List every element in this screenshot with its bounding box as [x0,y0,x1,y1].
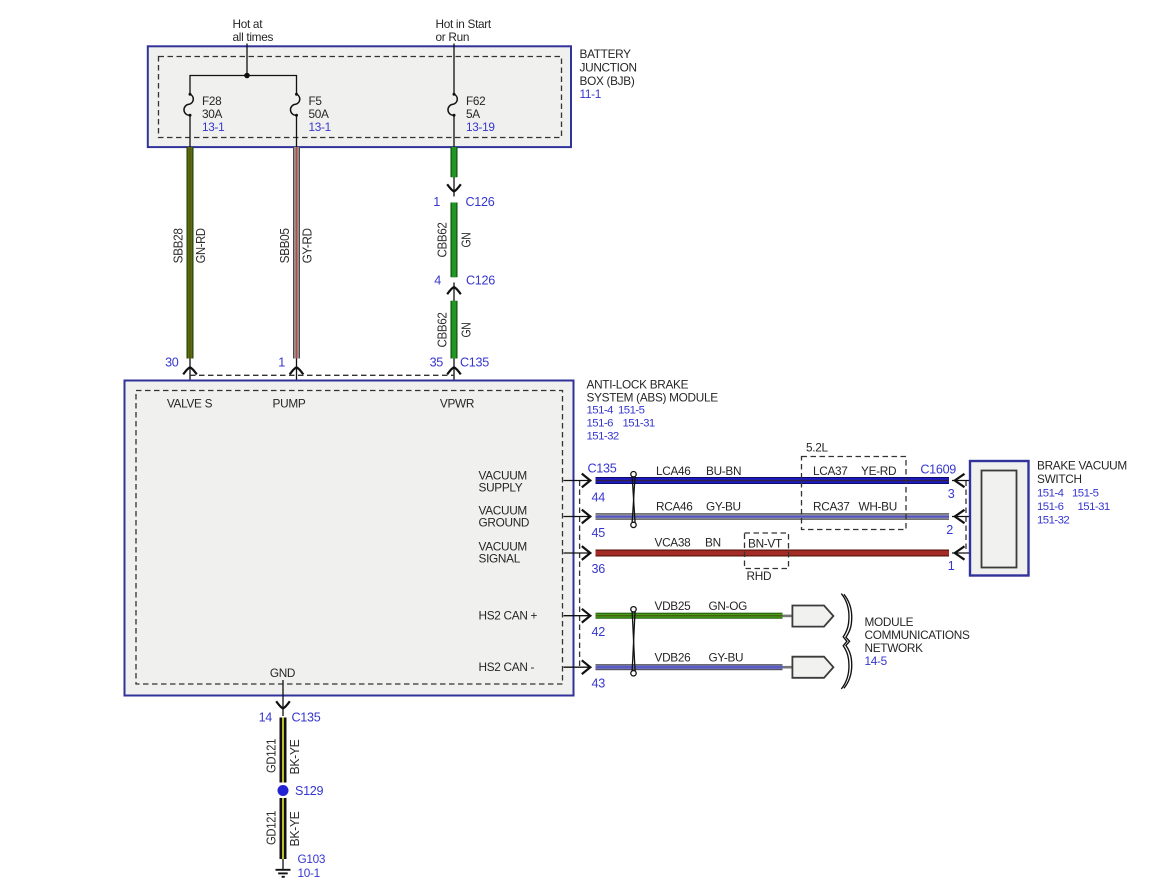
svg-text:1: 1 [278,356,285,370]
wire SBB05 GY-RD [277,147,315,359]
svg-text:GN: GN [458,232,473,247]
svg-text:GN-OG: GN-OG [709,599,748,613]
wire hot-in-start feed [453,44,455,94]
svg-text:or Run: or Run [436,30,470,44]
svg-text:SBB28: SBB28 [170,228,185,263]
pin 1 ABS [278,356,303,397]
svg-text:YE-RD: YE-RD [861,464,896,478]
wire CBB62 GN segment 1 [451,147,458,177]
label BATTERY JUNCTION BOX (BJB) 11-1 [580,47,637,101]
svg-text:GD121: GD121 [264,739,279,773]
label MODULE COMMUNICATIONS NETWORK 14-5 [865,615,970,668]
svg-text:Hot at: Hot at [233,17,264,31]
svg-text:45: 45 [592,526,606,540]
svg-text:BN: BN [705,536,721,550]
wire hot-at-all-times feed [246,44,248,76]
svg-text:5.2L: 5.2L [806,441,828,455]
pin 2 brake vacuum switch [946,510,981,537]
svg-text:PUMP: PUMP [273,397,306,411]
pin 36 ABS [564,546,606,576]
svg-text:GROUND: GROUND [479,516,530,530]
svg-text:HS2 CAN +: HS2 CAN + [479,609,538,623]
dashed option box BN-VT RHD [745,533,789,583]
svg-text:36: 36 [592,562,606,576]
svg-text:30: 30 [165,356,179,370]
svg-text:Hot in Start: Hot in Start [436,17,492,31]
svg-text:151-5: 151-5 [618,405,645,417]
fuse F5 50A 13-1 [290,93,330,134]
svg-text:C126: C126 [466,274,495,288]
pin 3 brake vacuum switch [948,474,982,501]
svg-text:13-19: 13-19 [466,120,495,134]
svg-text:43: 43 [592,677,606,691]
off-page connector HS2 CAN + [783,606,834,627]
pin 45 ABS [564,510,606,540]
svg-text:13-1: 13-1 [309,120,331,134]
label BRAKE VACUUM SWITCH [1037,459,1127,527]
svg-text:GD121: GD121 [264,811,279,845]
svg-text:S129: S129 [295,784,324,798]
connector C1609 dashed line [965,481,967,554]
svg-text:BATTERY: BATTERY [580,47,632,61]
svg-text:ANTI-LOCK BRAKE: ANTI-LOCK BRAKE [587,378,689,392]
wire bus to fuses [190,76,297,94]
wire GD121 BK-YE segment 2 [264,798,303,859]
svg-text:BK-YE: BK-YE [287,739,302,775]
svg-text:1: 1 [948,559,955,573]
svg-text:JUNCTION: JUNCTION [580,61,637,75]
svg-text:C126: C126 [466,195,495,209]
svg-text:5A: 5A [466,107,480,121]
svg-text:CBB62: CBB62 [434,222,449,257]
fuse F28 30A 13-1 [184,93,224,134]
svg-text:HS2 CAN -: HS2 CAN - [479,660,535,674]
svg-text:BOX (BJB): BOX (BJB) [580,74,635,88]
svg-text:14-5: 14-5 [865,654,888,668]
svg-text:BN-VT: BN-VT [748,537,782,551]
pin label VACUUM SUPPLY [479,469,527,495]
svg-text:14: 14 [259,711,273,725]
splice S129 [278,784,324,798]
wire VDB25 GN-OG [596,599,783,619]
wire VCA38 BN [596,536,950,557]
brace module communications network [841,594,851,689]
svg-text:151-32: 151-32 [587,431,619,443]
wire F5 output [296,115,298,147]
svg-text:G103: G103 [298,852,326,866]
connector C126 pin 4 [434,274,495,302]
svg-text:VPWR: VPWR [440,397,474,411]
wire F62 output [453,115,455,147]
svg-text:RCA37: RCA37 [813,500,850,514]
pin label VACUUM GROUND [479,504,530,530]
connector C135 pin 35 [430,356,490,397]
svg-text:4: 4 [434,274,441,288]
battery junction box BJB [148,46,571,147]
connector C135 dashed line right [579,481,581,668]
fuse F62 5A 13-19 [448,93,495,134]
junction node [244,73,250,79]
svg-text:RCA46: RCA46 [656,500,693,514]
svg-text:RHD: RHD [747,569,772,583]
svg-text:11-1: 11-1 [580,87,602,101]
pin 1 brake vacuum switch [948,546,982,573]
svg-text:151-6: 151-6 [587,418,614,430]
wire GD121 BK-YE segment 1 [264,718,303,783]
svg-text:MODULE: MODULE [865,615,914,629]
dashed option box 5.2L [802,441,907,530]
svg-text:1: 1 [433,195,440,209]
svg-text:GN: GN [458,322,473,337]
twisted pair loop wires 44-45 [631,472,636,528]
svg-text:SYSTEM (ABS) MODULE: SYSTEM (ABS) MODULE [587,391,719,405]
svg-text:COMMUNICATIONS: COMMUNICATIONS [865,628,970,642]
svg-text:3: 3 [948,487,955,501]
wire VDB26 GY-BU [596,651,783,671]
svg-text:all times: all times [233,30,274,44]
svg-text:GY-BU: GY-BU [709,651,744,665]
wire SBB28 GN-RD [170,147,208,359]
connector C126 pin 1 [433,177,494,209]
wire RCA46 GY-BU [596,500,950,520]
off-page connector HS2 CAN - [783,657,834,678]
twisted pair loop wires 42-43 [631,607,636,676]
pin 42 ABS [564,609,606,639]
anti-lock brake system ABS module box [125,381,574,696]
pin 44 ABS [564,462,617,505]
ground G103 10-1 [276,852,326,880]
svg-text:BK-YE: BK-YE [287,811,302,847]
svg-text:LCA46: LCA46 [656,464,691,478]
svg-text:C135: C135 [588,462,617,476]
svg-text:151-32: 151-32 [1037,515,1069,527]
svg-text:13-1: 13-1 [202,120,224,134]
svg-text:35: 35 [430,356,444,370]
connector C135 dashed line top [190,374,454,376]
pin 30 ABS [165,356,197,397]
wire CBB62 GN segment 2 [434,203,473,278]
svg-text:WH-BU: WH-BU [859,500,897,514]
svg-text:151-31: 151-31 [1078,501,1110,513]
svg-text:SBB05: SBB05 [277,228,292,263]
svg-text:C135: C135 [292,711,321,725]
svg-text:151-4: 151-4 [587,405,614,417]
svg-text:F28: F28 [202,94,222,108]
svg-text:151-5: 151-5 [1072,488,1099,500]
svg-text:C135: C135 [460,356,489,370]
svg-text:NETWORK: NETWORK [865,641,924,655]
svg-text:151-4: 151-4 [1037,488,1064,500]
svg-text:VCA38: VCA38 [655,536,692,550]
svg-text:VALVE S: VALVE S [167,397,213,411]
pin 43 ABS [564,660,606,690]
label Hot in Start or Run [436,17,492,44]
svg-text:151-6: 151-6 [1037,501,1064,513]
svg-text:C1609: C1609 [920,463,956,477]
svg-text:F5: F5 [309,94,323,108]
svg-text:151-31: 151-31 [623,418,655,430]
svg-text:SUPPLY: SUPPLY [479,481,523,495]
svg-text:GY-RD: GY-RD [300,228,315,263]
svg-text:50A: 50A [309,107,330,121]
svg-text:BRAKE VACUUM: BRAKE VACUUM [1037,459,1127,473]
svg-text:44: 44 [592,491,606,505]
svg-text:GND: GND [270,666,295,680]
wire CBB62 GN segment 3 [434,301,473,359]
svg-text:VDB25: VDB25 [655,599,692,613]
svg-text:10-1: 10-1 [298,866,320,880]
wire LCA46 BU-BN [596,464,950,484]
svg-text:SIGNAL: SIGNAL [479,552,521,566]
svg-text:VDB26: VDB26 [655,651,692,665]
svg-text:CBB62: CBB62 [434,312,449,347]
brake vacuum switch box [970,461,1029,576]
wire F28 output [189,115,191,147]
svg-text:SWITCH: SWITCH [1037,472,1082,486]
pin label VACUUM SIGNAL [479,540,527,566]
svg-text:2: 2 [946,523,953,537]
label ANTI-LOCK BRAKE SYSTEM (ABS) MODULE [587,378,719,443]
svg-text:42: 42 [592,625,606,639]
svg-text:BU-BN: BU-BN [706,464,741,478]
svg-text:F62: F62 [466,94,485,108]
label Hot at all times [233,17,274,44]
svg-text:GN-RD: GN-RD [193,228,208,263]
pin 14 GND ABS [259,680,321,725]
svg-text:GY-BU: GY-BU [706,500,741,514]
svg-text:LCA37: LCA37 [813,464,848,478]
svg-text:30A: 30A [202,107,223,121]
